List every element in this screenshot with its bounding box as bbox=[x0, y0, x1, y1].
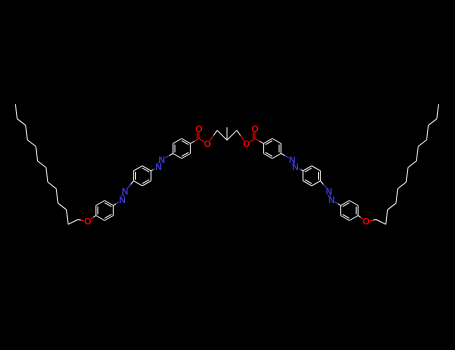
benzene ring B' bbox=[303, 166, 320, 186]
benzene ring C' bbox=[341, 201, 358, 221]
azo group 2' N=N bbox=[320, 181, 334, 205]
ester carbonyl C=O' bbox=[253, 132, 263, 143]
bond N4-ring C' bbox=[335, 202, 341, 206]
O-CH2 bond' bbox=[237, 130, 245, 140]
bond ring C-O bbox=[91, 216, 96, 220]
ester C-O bond bbox=[199, 139, 204, 142]
bond N2-ring B bbox=[151, 169, 155, 171]
bond N4-ring C bbox=[113, 202, 119, 206]
svg-text:O: O bbox=[251, 124, 258, 134]
ether O label bbox=[84, 217, 91, 227]
benzene ring A (benzoate) bbox=[173, 139, 190, 159]
benzene ring B bbox=[134, 166, 151, 186]
O-CH2 bond bbox=[210, 130, 218, 140]
svg-text:O: O bbox=[84, 217, 91, 227]
ester C-O bond' bbox=[250, 139, 255, 142]
dodecyl chain bbox=[15, 104, 83, 224]
azo group 1' N=N bbox=[281, 154, 299, 173]
2-methylpropane-1,3-diyl bridge CH2-CH(CH3)-CH2 bbox=[217, 127, 237, 140]
svg-text:N: N bbox=[119, 195, 126, 205]
benzene ring C bbox=[96, 201, 113, 221]
svg-text:O: O bbox=[195, 124, 202, 134]
svg-text:N: N bbox=[328, 195, 335, 205]
bond N2-ring B' bbox=[299, 169, 303, 171]
benzene ring A' (benzoate) bbox=[264, 139, 281, 159]
svg-text:N: N bbox=[292, 162, 299, 172]
svg-text:N: N bbox=[155, 162, 162, 172]
svg-text:O: O bbox=[363, 217, 370, 227]
ester O label bbox=[204, 139, 211, 149]
bond ring C-O' bbox=[358, 216, 363, 220]
ester O label' bbox=[243, 139, 250, 149]
carbonyl O label' bbox=[251, 124, 258, 134]
ester carbonyl C=O bbox=[190, 132, 199, 143]
carbonyl O label bbox=[195, 124, 202, 134]
dodecyl chain' bbox=[370, 104, 438, 224]
azo group 2 N=N bbox=[119, 181, 133, 205]
ether O label' bbox=[363, 217, 370, 227]
azo group 1 N=N bbox=[155, 154, 173, 173]
